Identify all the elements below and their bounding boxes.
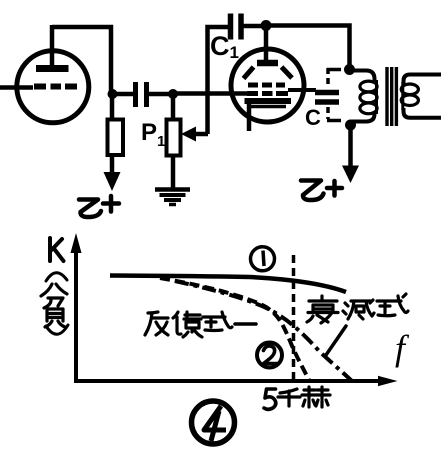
svg-text:C: C xyxy=(305,105,321,130)
